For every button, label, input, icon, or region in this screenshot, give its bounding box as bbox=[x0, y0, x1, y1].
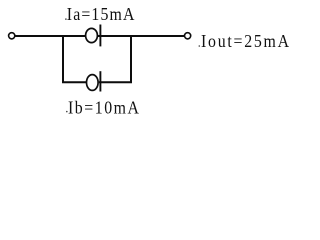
wire top-right segment bbox=[98, 35, 184, 37]
current source Ia (upper) bbox=[86, 25, 101, 47]
svg-text:Ia=15mA: Ia=15mA bbox=[67, 4, 136, 24]
dot artifact near Ib label bbox=[66, 111, 68, 113]
wire top-left segment bbox=[15, 35, 85, 37]
dot artifact near Ia label bbox=[65, 18, 67, 20]
wire right branch vertical bbox=[130, 35, 132, 83]
svg-text:Iout=25mA: Iout=25mA bbox=[201, 31, 291, 51]
terminal (right) bbox=[185, 33, 191, 39]
wire bottom-right segment bbox=[99, 81, 132, 83]
wire left branch vertical bbox=[62, 35, 64, 83]
wire bottom-left segment bbox=[62, 81, 86, 83]
svg-text:Ib=10mA: Ib=10mA bbox=[68, 98, 140, 118]
terminal (left) bbox=[9, 33, 15, 39]
dot artifact near Iout label bbox=[199, 45, 201, 47]
current source Ib (lower) bbox=[87, 71, 101, 91]
